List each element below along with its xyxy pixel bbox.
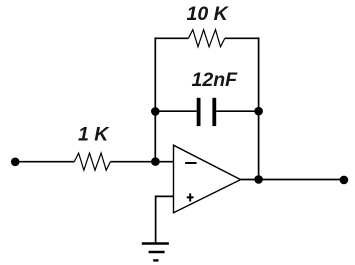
wire non-inverting input horizontal (156, 195, 174, 197)
op-amp minus pin symbol (185, 162, 196, 164)
resistor R-feedback 10K zigzag (188, 30, 224, 47)
wire feedback top left segment (155, 37, 188, 39)
op-amp U1 triangle (174, 145, 241, 213)
label 1 K (78, 124, 110, 146)
svg-text:1 K: 1 K (78, 124, 110, 146)
capacitor C1 12nF plates (197, 98, 217, 126)
input terminal dot (11, 158, 20, 167)
wire non-inverting input vertical to ground (155, 196, 157, 244)
wire capacitor right lead (216, 110, 258, 112)
svg-text:12nF: 12nF (192, 69, 239, 91)
junction node output (254, 175, 263, 184)
wire capacitor left lead (155, 110, 196, 112)
wire feedback top right segment (225, 37, 259, 39)
wire feedback left vertical rail (154, 37, 156, 161)
label 10 K (187, 3, 230, 25)
ground symbol (142, 244, 169, 261)
wire output segment (241, 179, 344, 181)
wire input left segment (15, 161, 74, 163)
output terminal dot (340, 176, 349, 185)
junction node inverting input (151, 157, 160, 166)
label 12nF (192, 69, 239, 91)
wire input right segment to op-amp inverting input (110, 161, 173, 163)
resistor R-input 1K zigzag (74, 153, 110, 170)
svg-text:10 K: 10 K (187, 3, 230, 25)
op-amp plus pin symbol (187, 193, 194, 201)
junction node capacitor-left (151, 107, 160, 116)
junction node capacitor-right (254, 107, 263, 116)
wire feedback right vertical rail (258, 37, 260, 179)
